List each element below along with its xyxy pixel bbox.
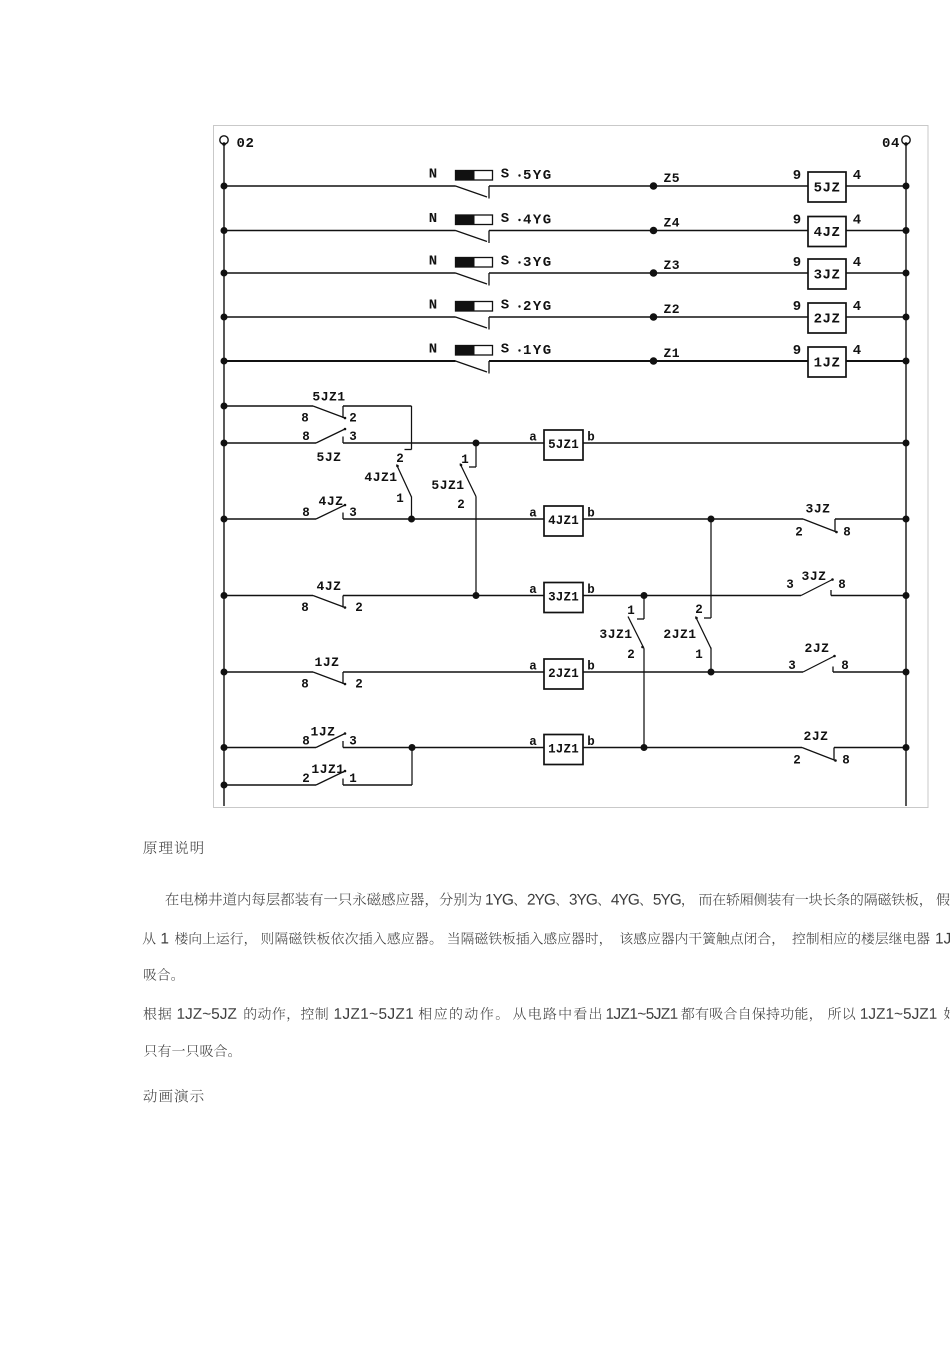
svg-text:4JZ: 4JZ xyxy=(317,579,342,594)
svg-text:1: 1 xyxy=(627,604,635,618)
junction left bus node row2 xyxy=(221,440,228,447)
svg-text:04: 04 xyxy=(882,136,900,152)
svg-text:2JZ: 2JZ xyxy=(804,729,829,744)
svg-text:4YG: 4YG xyxy=(523,213,553,229)
junction right bus node row4 xyxy=(903,592,910,599)
svg-text:2: 2 xyxy=(355,678,363,692)
svg-text:8: 8 xyxy=(843,526,851,540)
svg-text:3YG: 3YG xyxy=(523,255,553,271)
wire row5 right xyxy=(833,671,906,673)
junction right bus node row 3YG xyxy=(903,270,910,277)
svg-text:3JZ: 3JZ xyxy=(814,268,841,284)
svg-text:Z5: Z5 xyxy=(664,171,681,186)
svg-text:8: 8 xyxy=(838,578,846,592)
junction right bus node row 5YG xyxy=(903,183,910,190)
wire 4JZ1 to row3 xyxy=(411,497,413,520)
contact 1JZ (pins 8-2) xyxy=(301,655,363,692)
svg-text:3JZ1: 3JZ1 xyxy=(548,591,579,605)
wire row4 mid xyxy=(343,595,544,597)
svg-text:N: N xyxy=(429,298,437,314)
svg-text:3JZ: 3JZ xyxy=(806,502,831,517)
magnetic sensor 5YG (N-S magnet + reed switch) xyxy=(429,167,553,199)
wire row 1YG right xyxy=(489,360,906,362)
svg-text:5JZ: 5JZ xyxy=(814,181,841,197)
junction node Z3 xyxy=(650,269,658,277)
wire row 4YG right xyxy=(489,230,906,232)
relay coil 2JZ (pins 9-4) xyxy=(793,299,861,333)
svg-text:2: 2 xyxy=(457,498,465,512)
wire row7 left xyxy=(224,784,316,786)
svg-text:4: 4 xyxy=(853,343,861,359)
svg-text:3JZ1: 3JZ1 xyxy=(599,627,632,642)
svg-text:4JZ: 4JZ xyxy=(319,494,344,509)
magnetic sensor 1YG (N-S magnet + reed switch) xyxy=(429,342,553,374)
svg-text:8: 8 xyxy=(301,601,309,615)
magnetic sensor 4YG (N-S magnet + reed switch) xyxy=(429,211,553,243)
svg-text:1JZ: 1JZ xyxy=(315,655,340,670)
svg-text:4: 4 xyxy=(853,255,861,271)
svg-text:2: 2 xyxy=(396,452,404,466)
magnetic sensor 3YG (N-S magnet + reed switch) xyxy=(429,254,553,286)
svg-text:2YG: 2YG xyxy=(523,299,553,315)
svg-text:1JZ1: 1JZ1 xyxy=(311,762,344,777)
svg-text:3JZ: 3JZ xyxy=(802,569,827,584)
relay coil 4JZ1 (pins a-b) xyxy=(529,506,595,536)
svg-text:1JZ: 1JZ xyxy=(814,356,841,372)
contact 4JZ (pins 8-3) xyxy=(302,494,357,520)
contact 2JZ (pins 3-8) xyxy=(788,641,849,673)
relay coil 3JZ (pins 9-4) xyxy=(793,255,861,289)
contact 5JZ1 (pins 8-2), normally open xyxy=(301,390,357,426)
svg-text:2JZ1: 2JZ1 xyxy=(548,667,579,681)
svg-text:9: 9 xyxy=(793,299,801,315)
wire right bus 04 xyxy=(905,145,907,807)
svg-text:3: 3 xyxy=(786,578,794,592)
junction left bus node row3 xyxy=(221,516,228,523)
svg-text:Z3: Z3 xyxy=(664,258,681,273)
svg-text:2: 2 xyxy=(795,526,803,540)
contact 1JZ (pins 8-3) xyxy=(302,725,357,749)
junction node Z2 xyxy=(650,313,658,321)
svg-text:2JZ: 2JZ xyxy=(805,641,830,656)
wire row7 to riser xyxy=(343,784,412,786)
wire left bus 02 xyxy=(223,145,225,807)
junction node Z5 xyxy=(650,182,658,190)
svg-text:N: N xyxy=(429,167,437,183)
svg-text:2: 2 xyxy=(349,412,357,426)
svg-text:5JZ1: 5JZ1 xyxy=(548,438,579,452)
svg-text:4: 4 xyxy=(853,299,861,315)
wire row3 mid xyxy=(343,518,544,520)
relay coil 5JZ (pins 9-4) xyxy=(793,168,861,202)
wire row5 left xyxy=(224,671,313,673)
wire row2 left xyxy=(224,442,316,444)
svg-text:2: 2 xyxy=(627,648,635,662)
junction right bus node row 2YG xyxy=(903,314,910,321)
svg-text:8: 8 xyxy=(841,659,849,673)
wire row 4YG left xyxy=(224,230,456,232)
wire row2 right xyxy=(583,442,906,444)
svg-text:4JZ1: 4JZ1 xyxy=(364,470,397,485)
wire row3 right-mid xyxy=(583,518,803,520)
relay coil 1JZ1 (pins a-b) xyxy=(529,735,595,765)
junction left bus node row 1YG xyxy=(221,358,228,365)
svg-text:8: 8 xyxy=(302,735,310,749)
junction node Z4 xyxy=(650,227,658,235)
junction right bus node row 1YG xyxy=(903,358,910,365)
svg-text:1JZ: 1JZ xyxy=(311,725,336,740)
svg-text:5JZ1: 5JZ1 xyxy=(312,390,345,405)
wire row4 right xyxy=(831,595,906,597)
schematic image frame xyxy=(214,126,929,808)
contact 4JZ1 (pins 2-1), vertical xyxy=(364,450,411,507)
relay coil 4JZ (pins 9-4) xyxy=(793,213,861,247)
svg-text:5JZ1: 5JZ1 xyxy=(431,478,464,493)
wire row3 right xyxy=(835,518,906,520)
svg-text:1JZ1: 1JZ1 xyxy=(548,743,579,757)
wire 2JZ1 branch to row5 xyxy=(710,648,712,673)
svg-text:4: 4 xyxy=(853,168,861,184)
junction node row4/5JZ1 branch end xyxy=(473,592,480,599)
wire row6 right xyxy=(834,747,906,749)
svg-text:9: 9 xyxy=(793,343,801,359)
svg-text:3: 3 xyxy=(349,430,357,444)
magnetic sensor 2YG (N-S magnet + reed switch) xyxy=(429,298,553,330)
wire row 2YG right xyxy=(489,316,906,318)
svg-text:S: S xyxy=(501,342,509,358)
terminal 04 xyxy=(882,136,910,152)
svg-text:a: a xyxy=(529,735,537,749)
wire row5 right-mid xyxy=(583,671,803,673)
svg-text:1: 1 xyxy=(349,772,357,786)
svg-text:N: N xyxy=(429,211,437,227)
junction node row2/5JZ1 branch xyxy=(473,440,480,447)
svg-text:Z2: Z2 xyxy=(664,302,681,317)
svg-text:1: 1 xyxy=(396,492,404,506)
wire row 3YG right xyxy=(489,272,906,274)
wire row4 right-mid xyxy=(583,595,801,597)
wire row1 to riser xyxy=(343,405,412,407)
svg-text:1: 1 xyxy=(695,648,703,662)
contact 2JZ1 (pins 2-1), vertical xyxy=(710,519,712,618)
wire row6 mid xyxy=(343,747,544,749)
junction node row4/3JZ1 branch xyxy=(641,592,648,599)
svg-text:8: 8 xyxy=(302,430,310,444)
junction node Z1 xyxy=(650,357,658,365)
svg-text:4: 4 xyxy=(853,213,861,229)
wire row 5YG left xyxy=(224,185,456,187)
svg-text:9: 9 xyxy=(793,255,801,271)
wire row6 right-mid xyxy=(583,747,802,749)
junction left bus node row6 xyxy=(221,744,228,751)
wire row 2YG left xyxy=(224,316,456,318)
contact 3JZ (pins 2-8) xyxy=(795,502,851,540)
wire row 3YG left xyxy=(224,272,456,274)
wire row 1YG left xyxy=(224,360,456,362)
junction left bus node row 4YG xyxy=(221,227,228,234)
wire row4 left xyxy=(224,595,313,597)
junction left bus node row1 xyxy=(221,403,228,410)
junction node row3/4JZ1 xyxy=(408,516,415,523)
junction right bus node row2 xyxy=(903,440,910,447)
relay coil 5JZ1 (pins a-b) xyxy=(529,430,595,460)
svg-text:4JZ: 4JZ xyxy=(814,225,841,241)
terminal 02 xyxy=(220,136,255,152)
svg-text:8: 8 xyxy=(302,506,310,520)
svg-text:1YG: 1YG xyxy=(523,343,553,359)
wire row2 mid xyxy=(343,442,544,444)
svg-text:S: S xyxy=(501,167,509,183)
junction left bus node row 2YG xyxy=(221,314,228,321)
svg-text:N: N xyxy=(429,342,437,358)
junction node row6/3JZ1 branch end xyxy=(641,744,648,751)
svg-text:a: a xyxy=(529,431,537,445)
svg-text:8: 8 xyxy=(301,412,309,426)
svg-text:8: 8 xyxy=(842,754,850,768)
svg-text:3: 3 xyxy=(349,506,357,520)
svg-text:2JZ: 2JZ xyxy=(814,312,841,328)
document text xyxy=(143,841,950,1103)
relay coil 1JZ (pins 9-4) xyxy=(793,343,861,377)
svg-text:9: 9 xyxy=(793,213,801,229)
svg-text:3: 3 xyxy=(349,735,357,749)
svg-text:N: N xyxy=(429,254,437,270)
contact 5JZ (pins 8-3) xyxy=(302,428,357,465)
wire row3 left xyxy=(224,518,316,520)
svg-text:1: 1 xyxy=(461,453,469,467)
svg-text:2: 2 xyxy=(355,601,363,615)
svg-text:3: 3 xyxy=(788,659,796,673)
svg-text:a: a xyxy=(529,660,537,674)
svg-text:9: 9 xyxy=(793,168,801,184)
contact 2JZ (pins 2-8) xyxy=(793,729,850,768)
wire 3JZ1 branch to row6 xyxy=(643,649,645,748)
svg-text:02: 02 xyxy=(237,136,255,152)
wire row1 left xyxy=(224,405,313,407)
svg-text:2: 2 xyxy=(793,754,801,768)
contact 3JZ (pins 3-8) xyxy=(786,569,846,596)
svg-text:S: S xyxy=(501,211,509,227)
contact 3JZ1 (pins 1-2), vertical xyxy=(643,596,645,620)
contact 4JZ (pins 8-2) xyxy=(301,579,363,615)
svg-text:Z4: Z4 xyxy=(664,216,681,231)
wire row6 left xyxy=(224,747,316,749)
svg-text:5JZ: 5JZ xyxy=(317,450,342,465)
junction node row5/2JZ1 branch end xyxy=(708,669,715,676)
riser wire row7 to row6 xyxy=(411,748,413,786)
svg-text:S: S xyxy=(501,298,509,314)
junction left bus node row 5YG xyxy=(221,183,228,190)
wire 5JZ1 branch to row4 xyxy=(475,497,477,596)
junction right bus node row5 xyxy=(903,669,910,676)
svg-text:2JZ1: 2JZ1 xyxy=(663,627,696,642)
junction right bus node row6 xyxy=(903,744,910,751)
junction left bus node row 3YG xyxy=(221,270,228,277)
junction left bus node row7 xyxy=(221,782,228,789)
wire row5 mid xyxy=(343,671,544,673)
junction node row6/riser xyxy=(409,744,416,751)
svg-text:Z1: Z1 xyxy=(664,346,681,361)
riser wire row1 to 4JZ1 contact xyxy=(411,406,413,450)
svg-text:2: 2 xyxy=(302,772,310,786)
svg-text:a: a xyxy=(529,507,537,521)
svg-text:4JZ1: 4JZ1 xyxy=(548,514,579,528)
contact 5JZ1 (pins 1-2), vertical xyxy=(475,443,477,467)
junction left bus node row5 xyxy=(221,669,228,676)
svg-text:5YG: 5YG xyxy=(523,168,553,184)
junction right bus node row 4YG xyxy=(903,227,910,234)
svg-text:8: 8 xyxy=(301,678,309,692)
relay coil 3JZ1 (pins a-b) xyxy=(529,583,595,613)
svg-text:2: 2 xyxy=(695,603,703,617)
junction node row3/2JZ1 branch xyxy=(708,516,715,523)
contact 1JZ1 (pins 2-1) xyxy=(302,762,357,786)
relay coil 2JZ1 (pins a-b) xyxy=(529,659,595,689)
svg-text:S: S xyxy=(501,254,509,270)
junction right bus node row3 xyxy=(903,516,910,523)
wire row 5YG right xyxy=(489,185,906,187)
junction left bus node row4 xyxy=(221,592,228,599)
svg-text:a: a xyxy=(529,583,537,597)
